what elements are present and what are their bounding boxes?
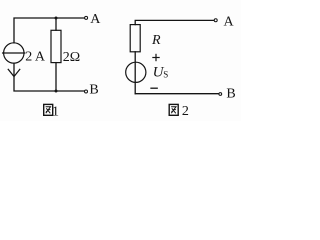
svg-text:B: B xyxy=(89,83,98,98)
terminal node B (figure 2) xyxy=(219,93,222,96)
wire resistor to source (figure 2) xyxy=(134,52,136,94)
svg-text:A: A xyxy=(224,15,235,30)
svg-text:1: 1 xyxy=(52,104,59,119)
wire top left (figure 1) xyxy=(14,18,85,43)
svg-text:S: S xyxy=(163,69,168,79)
junction bottom (figure 1) xyxy=(55,90,58,93)
wire resistor branch (figure 1) xyxy=(55,18,57,30)
terminal node A (figure 2) xyxy=(214,19,217,22)
svg-text:2 A: 2 A xyxy=(25,50,46,65)
caption figure 1 glyph tu xyxy=(44,104,53,115)
voltage source Us circle xyxy=(126,62,146,82)
terminal node A (figure 1) xyxy=(85,16,88,19)
junction top (figure 1) xyxy=(55,17,58,20)
svg-text:R: R xyxy=(151,33,161,48)
current source I1 bar xyxy=(3,52,25,54)
current source I1 2A circle xyxy=(4,43,24,63)
wire resistor branch bottom (figure 1) xyxy=(55,63,57,91)
terminal node B (figure 1) xyxy=(85,90,88,93)
current source I1 arrow xyxy=(8,69,20,76)
resistor R body (figure 2) xyxy=(130,25,140,52)
wire top (figure 2) xyxy=(135,20,214,24)
svg-text:B: B xyxy=(226,86,235,101)
wire bottom left (figure 1) xyxy=(14,63,84,91)
plus sign polarity xyxy=(153,54,159,60)
minus sign polarity xyxy=(151,87,157,89)
resistor R1 2ohm body xyxy=(51,30,61,62)
wire bottom (figure 2) xyxy=(135,93,219,95)
caption figure 2 glyph tu xyxy=(169,104,178,115)
svg-text:A: A xyxy=(90,12,101,27)
svg-text:2: 2 xyxy=(182,104,189,119)
svg-text:2Ω: 2Ω xyxy=(63,50,80,65)
